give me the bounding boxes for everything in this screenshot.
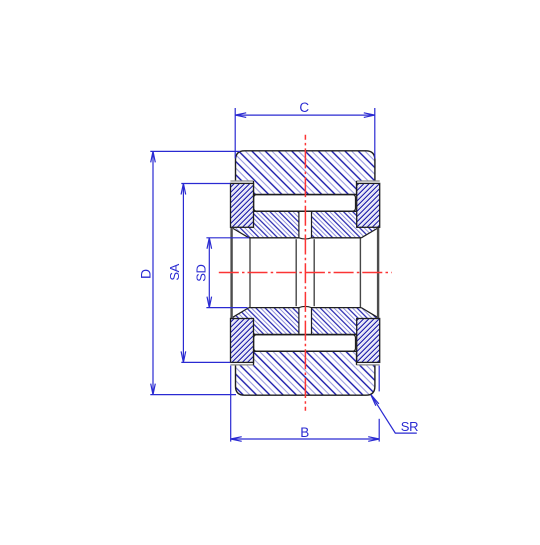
bore chamfer top right <box>361 228 377 237</box>
recess corner edge top right <box>356 181 358 195</box>
dimension C arrow right <box>364 113 375 118</box>
bore chamfer top left <box>233 228 249 237</box>
outer ring top half section hatch <box>236 151 375 195</box>
bore silhouette left <box>249 238 251 307</box>
inner ring split edge bottom right <box>311 308 313 335</box>
dimension D extension line top <box>150 150 240 152</box>
dimension B arrow right <box>368 437 379 442</box>
recess corner edge bottom right <box>356 351 358 365</box>
horizontal centerline <box>219 272 392 274</box>
svg-text:D: D <box>137 269 153 279</box>
inner ring split edge bottom left <box>298 308 300 335</box>
inner ring split edge top right <box>311 211 313 238</box>
dimension SD arrow top <box>207 238 212 249</box>
svg-text:C: C <box>299 100 309 115</box>
dimension SD line <box>208 238 210 308</box>
inner ring face silhouette left <box>230 228 232 319</box>
recess gray edge bottom right <box>356 364 379 366</box>
side washer bottom left <box>231 319 254 363</box>
dimension SD extension line top <box>206 237 249 239</box>
inner ring bottom band hatch <box>231 308 380 335</box>
side washer top right <box>357 183 380 227</box>
recess gray edge top right <box>356 180 379 182</box>
dimension B arrow left <box>231 437 242 442</box>
recess gray edge top left <box>230 180 253 182</box>
dimension SA arrow top <box>181 184 186 195</box>
leader SR line <box>371 395 417 433</box>
dimension C extension line left <box>234 108 236 159</box>
outer ring top outline with rounded corners <box>236 151 375 181</box>
dimension C arrow left <box>235 113 246 118</box>
bore line top right <box>312 237 362 239</box>
dimension B line <box>231 438 380 440</box>
recess corner edge top left <box>253 181 255 195</box>
bore line bottom left <box>249 307 299 309</box>
dimension B extension line right upper <box>378 366 380 392</box>
split silhouette left <box>295 239 297 306</box>
dimension C line <box>235 114 375 116</box>
inner ring face silhouette right <box>377 228 379 319</box>
vertical centerline <box>304 135 306 411</box>
dimension D line <box>152 151 154 394</box>
leader SR arrow <box>371 395 379 406</box>
split dip arc bottom <box>299 306 312 307</box>
dimension SA line <box>182 184 184 363</box>
split silhouette right <box>313 239 315 306</box>
bore chamfer bottom right <box>361 308 377 318</box>
bore line bottom right <box>312 307 362 309</box>
outer ring bottom outline with rounded corners <box>236 365 375 395</box>
bore silhouette right <box>359 238 361 307</box>
dimension D arrow bottom <box>151 384 156 395</box>
inner ring top band hatch <box>231 211 380 238</box>
dimension D extension line bottom <box>150 394 236 396</box>
dimension B extension line left <box>230 366 232 442</box>
svg-text:B: B <box>300 425 309 440</box>
dimension SD arrow bottom <box>207 297 212 308</box>
svg-text:SR: SR <box>401 419 418 434</box>
dimension SA extension line top <box>181 183 230 185</box>
bore chamfer bottom left <box>233 308 249 318</box>
dimension D arrow top <box>151 151 156 162</box>
dimension SA arrow bottom <box>181 351 186 362</box>
inner raceway line bottom <box>254 334 357 336</box>
needle roller top <box>254 195 356 212</box>
recess gray edge bottom left <box>230 364 253 366</box>
outer raceway line top <box>253 194 357 196</box>
inner raceway line top <box>254 210 357 212</box>
side washer bottom right <box>357 319 380 363</box>
svg-text:SA: SA <box>167 263 182 280</box>
svg-text:SD: SD <box>193 264 208 281</box>
side washer top left <box>231 183 254 227</box>
dimension C extension line right <box>374 108 376 159</box>
dimension SA extension line bottom <box>181 361 230 363</box>
dimension SD extension line bottom <box>206 307 247 309</box>
outer ring bottom half section hatch <box>236 351 375 395</box>
dimension B extension line right lower <box>378 419 380 442</box>
outer raceway line bottom <box>253 350 357 352</box>
needle roller bottom <box>254 335 356 352</box>
bore line top left <box>249 237 299 239</box>
inner ring split edge top left <box>298 211 300 238</box>
recess corner edge bottom left <box>253 351 255 365</box>
split dip arc top <box>299 238 312 239</box>
